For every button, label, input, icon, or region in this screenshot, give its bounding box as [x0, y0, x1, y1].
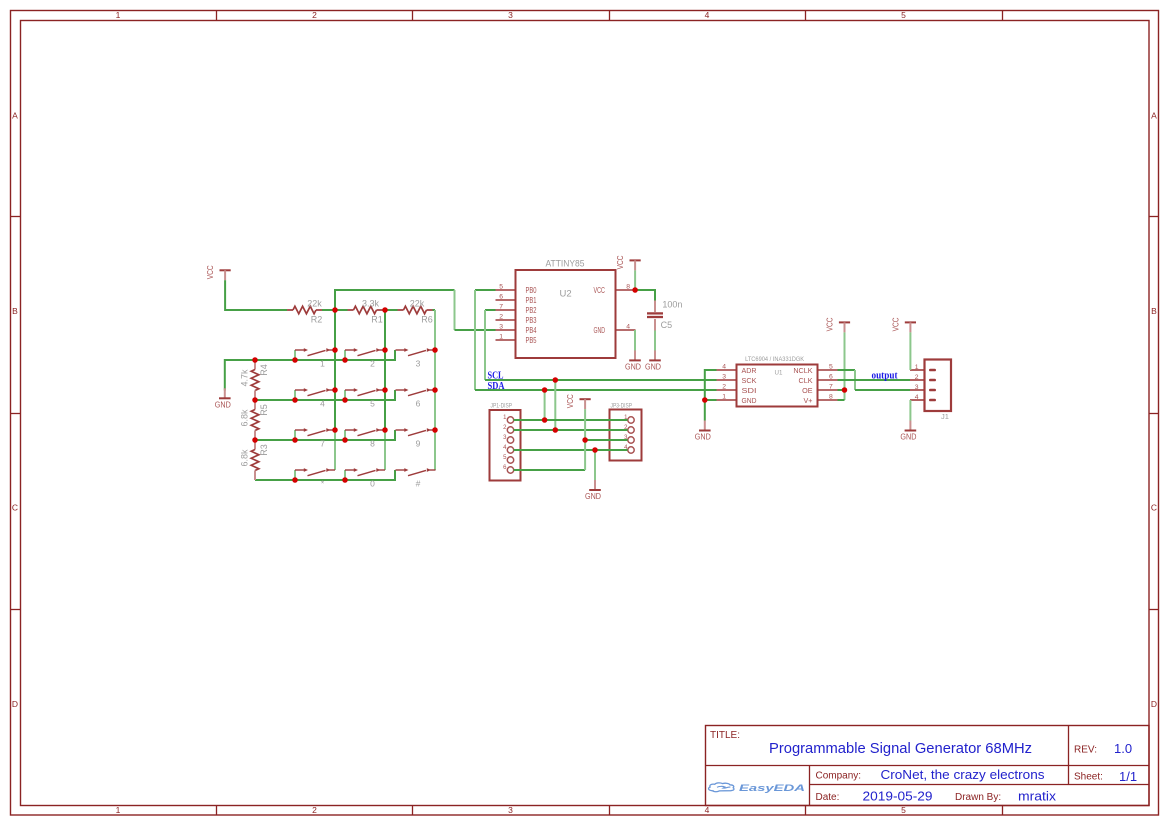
junction sw col1 row 2 — [292, 397, 298, 403]
junction U1 GND — [702, 397, 708, 403]
svg-text:3: 3 — [508, 805, 513, 815]
svg-text:LTC6904 / INA331DGK: LTC6904 / INA331DGK — [745, 356, 804, 363]
svg-text:100n: 100n — [662, 300, 682, 310]
svg-text:2: 2 — [312, 10, 317, 20]
JP3 pin 2 — [624, 425, 634, 433]
wire R6 to column 3 — [433, 309, 436, 311]
svg-text:A: A — [1151, 111, 1157, 121]
svg-text:output: output — [872, 369, 898, 381]
svg-text:PB0: PB0 — [526, 286, 537, 295]
svg-text:1: 1 — [116, 10, 121, 20]
svg-text:C: C — [1151, 503, 1157, 513]
svg-text:EasyEDA: EasyEDA — [739, 783, 805, 794]
JP1 pin 2 — [503, 425, 514, 433]
svg-text:B: B — [1151, 306, 1157, 316]
ground (C5) — [645, 350, 661, 371]
wire keypad row 4 — [255, 470, 395, 480]
JP3 pin 3 — [624, 435, 634, 443]
wire node to R6 — [385, 309, 398, 311]
svg-text:2019-05-29: 2019-05-29 — [863, 789, 933, 804]
junction sw col1 row 4 — [292, 477, 298, 483]
border column numbers — [116, 10, 907, 815]
resistor R4 4.7k — [240, 360, 269, 400]
wire pin8 to C5 — [635, 290, 655, 301]
resistor R5 6.8k — [240, 400, 269, 440]
wire PB0 to SDA — [475, 290, 496, 390]
wire U2 pin4 to ground — [634, 330, 636, 351]
junction sw col1 row 3 — [292, 437, 298, 443]
U2 pin 8 VCC — [594, 284, 636, 296]
wire keypad row 1 — [255, 350, 395, 360]
svg-text:TITLE:: TITLE: — [710, 730, 740, 741]
svg-text:SDI: SDI — [742, 386, 757, 395]
connector JP3-DISP body — [610, 410, 642, 461]
svg-text:B: B — [12, 306, 18, 316]
IC U1 LTC6904 body — [737, 365, 818, 407]
U2 pin 3 PB4 — [496, 324, 537, 336]
svg-text:6: 6 — [499, 294, 503, 301]
svg-text:D: D — [12, 699, 18, 709]
VCC symbol (keypad supply) — [206, 265, 231, 280]
svg-text:Date:: Date: — [816, 792, 840, 803]
wire SDA to JP pin1 — [544, 390, 546, 420]
svg-text:Programmable Signal Generator: Programmable Signal Generator 68MHz — [769, 741, 1032, 757]
svg-text:1: 1 — [722, 394, 726, 401]
switch key 0 — [345, 468, 385, 489]
wire keypad column 3 — [434, 310, 436, 470]
junction column x385 y430 — [382, 427, 388, 433]
svg-text:5: 5 — [499, 284, 503, 291]
wire VCC to V+ — [838, 332, 845, 400]
svg-text:3: 3 — [915, 384, 919, 391]
J1 pin 1 — [910, 364, 936, 372]
wire U1 GND stem — [704, 400, 706, 421]
wire row1 to GND — [225, 360, 255, 391]
resistor R1 3.3k — [348, 298, 383, 324]
svg-text:A: A — [12, 111, 18, 121]
svg-text:22k: 22k — [307, 298, 322, 308]
switch key # — [396, 468, 436, 489]
svg-text:VCC: VCC — [594, 286, 606, 295]
U1 pin 8 V+ — [804, 394, 838, 405]
svg-text:5: 5 — [901, 10, 906, 20]
wire JP1 pin2 to JP3 pin2 — [514, 429, 628, 431]
svg-text:4.7k: 4.7k — [240, 369, 250, 387]
svg-text:VCC: VCC — [616, 255, 625, 269]
wire ADR to GND net — [705, 370, 717, 400]
wire J1 pin4 to GND — [909, 400, 911, 421]
wire SCL run — [485, 379, 717, 381]
svg-text:GND: GND — [900, 433, 916, 442]
VCC symbol (J1) — [891, 317, 916, 332]
wire keypad column 1 — [334, 310, 336, 470]
svg-text:1: 1 — [499, 334, 503, 341]
U2 pin 4 GND — [594, 324, 636, 336]
U1 pin 2 SDI — [717, 384, 757, 395]
svg-text:6: 6 — [416, 399, 421, 409]
ground (display) — [585, 480, 601, 501]
wire CLK to J1 pin2 output — [838, 379, 911, 381]
svg-text:2: 2 — [722, 384, 726, 391]
ground (keypad) — [215, 388, 231, 409]
Company label and value — [816, 767, 1046, 782]
junction column x385 y350 — [382, 347, 388, 353]
junction R1/R6/col2 — [382, 307, 388, 313]
U1 pin 3 SCK — [717, 374, 757, 385]
J1 pin 4 — [910, 394, 936, 402]
svg-text:3: 3 — [499, 324, 503, 331]
border row letters — [12, 111, 1157, 710]
svg-text:3: 3 — [416, 359, 421, 369]
svg-text:2: 2 — [499, 314, 503, 321]
junction sw col2 row 3 — [342, 437, 348, 443]
VCC symbol (U2 pin8) — [616, 255, 641, 270]
svg-text:PB2: PB2 — [526, 306, 537, 315]
U1 pin 6 CLK — [799, 374, 838, 385]
wire U1 GND pin — [705, 399, 717, 401]
wire SCL to JP pin2 — [554, 380, 556, 430]
svg-text:J1: J1 — [941, 412, 949, 421]
resistor R3 6.8k — [240, 440, 269, 480]
wire SDA run — [475, 389, 717, 391]
svg-text:GND: GND — [695, 433, 711, 442]
junction GND display — [592, 447, 598, 453]
svg-text:ATTINY85: ATTINY85 — [546, 259, 585, 269]
svg-text:V+: V+ — [804, 396, 813, 405]
svg-text:2: 2 — [370, 359, 375, 369]
JP1 pin 5 — [503, 455, 514, 463]
connector JP1-DISP body — [490, 410, 521, 481]
junction R2/R1/col1 — [332, 307, 338, 313]
svg-text:GND: GND — [645, 363, 661, 372]
svg-text:R5: R5 — [259, 404, 269, 416]
svg-text:JP1-DISP: JP1-DISP — [491, 403, 513, 410]
junction chain row 2 — [252, 397, 258, 403]
svg-text:SCK: SCK — [742, 376, 757, 385]
svg-text:R3: R3 — [259, 444, 269, 456]
EasyEDA logo — [709, 783, 806, 794]
switch key * — [295, 468, 335, 489]
U1 pin 4 ADR — [717, 364, 757, 375]
junction SDA JP1 pin1 — [542, 417, 548, 423]
svg-text:6: 6 — [829, 374, 833, 381]
svg-text:GND: GND — [625, 363, 641, 372]
svg-text:NCLK: NCLK — [793, 366, 812, 375]
svg-text:1: 1 — [320, 359, 325, 369]
svg-text:1.0: 1.0 — [1114, 741, 1132, 756]
wire VCC to JP3 pin3 — [585, 439, 627, 441]
switch key 2 — [345, 348, 385, 369]
svg-text:8: 8 — [370, 439, 375, 449]
switch key 5 — [345, 388, 385, 409]
svg-text:U2: U2 — [560, 289, 572, 300]
U1 pin 5 NCLK — [793, 364, 837, 375]
junction column x335 y350 — [332, 347, 338, 353]
wire display row to GND — [594, 450, 596, 480]
svg-text:#: # — [416, 479, 421, 489]
svg-text:VCC: VCC — [206, 265, 215, 279]
JP1 pin 3 — [503, 435, 514, 443]
JP1 pin 4 — [503, 445, 514, 453]
connector J1 body — [925, 360, 952, 412]
svg-text:R2: R2 — [311, 315, 323, 325]
REV label and value — [1074, 741, 1132, 756]
J1 pin 3 — [910, 384, 936, 392]
svg-text:5: 5 — [829, 364, 833, 371]
wire JP1 pin1 to JP3 pin1 — [514, 419, 628, 421]
capacitor C5 100n — [647, 300, 682, 331]
U2 pin 1 PB5 — [496, 334, 537, 346]
U1 pin 7 OE — [802, 384, 837, 395]
svg-text:C: C — [12, 503, 18, 513]
wire keypad column 2 — [384, 310, 386, 470]
wire VCC to resistor row — [225, 280, 287, 310]
svg-text:CroNet, the crazy electrons: CroNet, the crazy electrons — [881, 767, 1046, 782]
svg-text:4: 4 — [705, 10, 710, 20]
svg-text:D: D — [1151, 699, 1157, 709]
U2 pin 2 PB3 — [496, 314, 537, 326]
svg-text:2: 2 — [915, 374, 919, 381]
svg-text:CLK: CLK — [799, 376, 813, 385]
junction sw col1 row 1 — [292, 357, 298, 363]
switch key 1 — [295, 348, 335, 369]
Date label and value — [816, 789, 933, 804]
junction column x335 y390 — [332, 387, 338, 393]
junction sw col2 row 1 — [342, 357, 348, 363]
svg-text:PB3: PB3 — [526, 316, 537, 325]
ground (J1) — [900, 421, 916, 442]
svg-text:OE: OE — [802, 386, 813, 395]
svg-text:VCC: VCC — [826, 317, 835, 331]
svg-text:R4: R4 — [259, 364, 269, 376]
resistor R6 22k — [398, 298, 433, 324]
svg-text:mratix: mratix — [1018, 789, 1057, 804]
junction VCC JP3 pin3 — [582, 437, 588, 443]
junction column x435 y430 — [432, 427, 438, 433]
svg-text:5: 5 — [370, 399, 375, 409]
svg-text:VCC: VCC — [566, 394, 575, 408]
wire C5 to ground — [654, 331, 656, 351]
wire R1 to node — [383, 309, 386, 311]
wire node to R1 — [335, 309, 348, 311]
Sheet label and value — [1074, 769, 1137, 784]
junction chain row 1 — [252, 357, 258, 363]
wire JP1 pin4 to JP3 pin4 — [514, 449, 628, 451]
svg-text:7: 7 — [499, 304, 503, 311]
junction U2 pin8 — [632, 287, 638, 293]
switch key 9 — [396, 428, 436, 449]
svg-text:4: 4 — [626, 324, 630, 331]
IC U2 ATTINY85 body — [516, 270, 616, 358]
JP3 pin 4 — [624, 445, 634, 453]
svg-text:3.3k: 3.3k — [362, 298, 380, 308]
wire keypad row 2 — [255, 390, 395, 400]
svg-text:PB5: PB5 — [526, 336, 537, 345]
svg-text:GND: GND — [215, 401, 231, 410]
svg-text:2: 2 — [312, 805, 317, 815]
junction OE to VCC — [842, 387, 848, 393]
svg-text:7: 7 — [320, 439, 325, 449]
svg-text:4: 4 — [722, 364, 726, 371]
svg-text:3: 3 — [722, 374, 726, 381]
switch key 7 — [295, 428, 335, 449]
junction sw col2 row 2 — [342, 397, 348, 403]
switch key 6 — [396, 388, 436, 409]
svg-text:R1: R1 — [371, 315, 383, 325]
svg-text:R6: R6 — [421, 315, 433, 325]
svg-text:8: 8 — [626, 284, 630, 291]
svg-text:1/1: 1/1 — [1119, 769, 1137, 784]
Drawn By label and value — [955, 789, 1057, 804]
svg-text:GND: GND — [742, 396, 757, 405]
U2 pin 5 PB0 — [496, 284, 537, 296]
svg-text:5: 5 — [901, 805, 906, 815]
svg-text:4: 4 — [915, 394, 919, 401]
wire OE to VCC line — [838, 389, 845, 391]
ground (U2 pin4) — [625, 350, 641, 371]
svg-text:1: 1 — [116, 805, 121, 815]
U1 pin 1 GND — [717, 394, 757, 405]
svg-text:PB4: PB4 — [526, 326, 537, 335]
svg-text:ADR: ADR — [742, 366, 757, 375]
junction sw col2 row 4 — [342, 477, 348, 483]
title block outline — [706, 726, 1150, 806]
svg-text:GND: GND — [585, 492, 601, 501]
svg-text:7: 7 — [829, 384, 833, 391]
svg-text:GND: GND — [594, 326, 606, 335]
switch key 8 — [345, 428, 385, 449]
svg-text:9: 9 — [416, 439, 421, 449]
U2 pin 6 PB1 — [496, 294, 537, 306]
wire NCLK to J1 pin3 — [838, 370, 911, 390]
ground (U1) — [695, 421, 711, 442]
svg-text:C5: C5 — [661, 320, 673, 330]
svg-text:1: 1 — [915, 364, 919, 371]
wire top rail to PB4 — [335, 290, 496, 330]
switch key 3 — [396, 348, 436, 369]
wire VCC to J1 pin1 — [909, 332, 911, 370]
wire VCC stem display — [584, 409, 586, 470]
svg-text:4: 4 — [320, 399, 325, 409]
svg-text:6.8k: 6.8k — [240, 449, 250, 467]
junction chain row 3 — [252, 437, 258, 443]
VCC symbol (U1) — [826, 317, 851, 332]
svg-text:U1: U1 — [775, 370, 783, 377]
svg-text:22k: 22k — [410, 298, 425, 308]
junction column x385 y390 — [382, 387, 388, 393]
wire PB2 to SCL — [485, 310, 496, 380]
junction column x435 y390 — [432, 387, 438, 393]
junction column x335 y430 — [332, 427, 338, 433]
svg-text:Drawn By:: Drawn By: — [955, 792, 1001, 803]
svg-text:6.8k: 6.8k — [240, 409, 250, 427]
svg-text:3: 3 — [508, 10, 513, 20]
U2 pin 7 PB2 — [496, 304, 537, 316]
JP1 pin 1 — [503, 415, 514, 423]
svg-text:4: 4 — [705, 805, 710, 815]
switch key 4 — [295, 388, 335, 409]
wire VCC stem to pin8 — [634, 270, 636, 290]
svg-text:Company:: Company: — [816, 771, 862, 782]
JP3 pin 1 — [624, 415, 634, 423]
junction column x435 y350 — [432, 347, 438, 353]
svg-text:VCC: VCC — [891, 317, 900, 331]
junction SDA drop — [542, 387, 548, 393]
junction SCL JP1 pin2 — [553, 427, 559, 433]
svg-text:8: 8 — [829, 394, 833, 401]
resistor R2 22k — [287, 298, 322, 324]
svg-text:PB1: PB1 — [526, 296, 537, 305]
wire JP1 pin6 to VCC — [514, 469, 586, 471]
VCC symbol (display) — [566, 394, 591, 409]
wire R2 to node — [322, 309, 335, 311]
svg-text:REV:: REV: — [1074, 745, 1097, 756]
junction SCL drop — [553, 377, 559, 383]
svg-text:0: 0 — [370, 479, 375, 489]
wire keypad row 3 — [255, 430, 395, 440]
J1 pin 2 — [910, 374, 936, 382]
svg-text:JP3-DISP: JP3-DISP — [611, 403, 633, 410]
svg-text:Sheet:: Sheet: — [1074, 772, 1103, 783]
JP1 pin 6 — [503, 465, 514, 473]
